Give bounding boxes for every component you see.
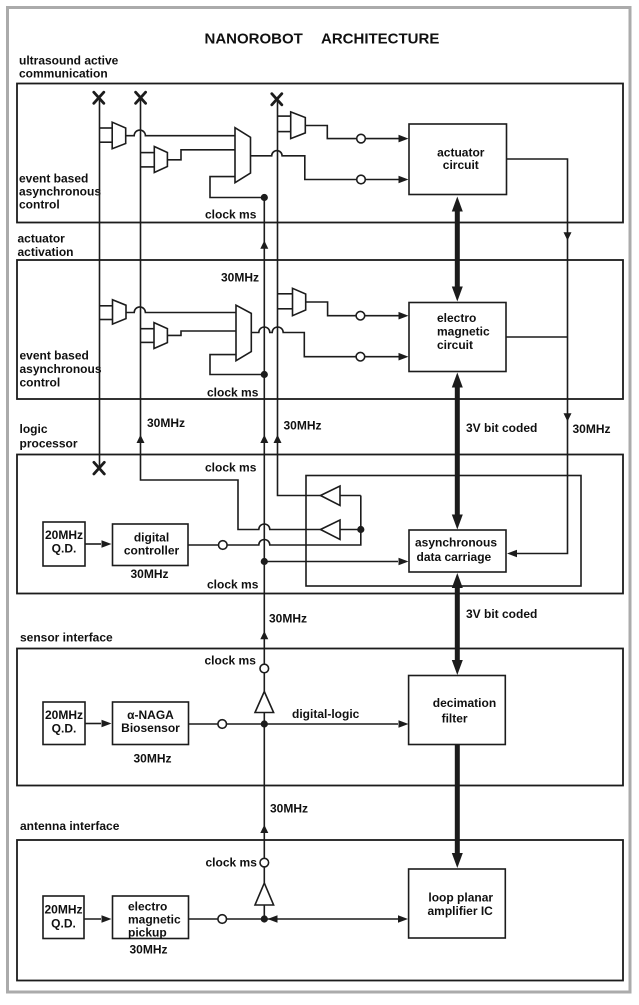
digital controller box U5 bbox=[113, 524, 189, 566]
20MHz QD box S4 bbox=[43, 702, 85, 745]
svg-text:magnetic: magnetic bbox=[128, 913, 181, 927]
mux M4 S1 bbox=[291, 112, 306, 139]
wire clock junction to async data carriage bbox=[264, 561, 398, 563]
svg-text:Q.D.: Q.D. bbox=[52, 722, 77, 736]
svg-text:Q.D.: Q.D. bbox=[51, 917, 76, 931]
wire buffer inputs bbox=[340, 496, 361, 530]
svg-text:asynchronous: asynchronous bbox=[415, 536, 497, 550]
wire mux M2 output bbox=[167, 150, 235, 160]
svg-text:actuator: actuator bbox=[18, 232, 66, 246]
mux M8 S2 bbox=[293, 288, 306, 315]
connector circle biosensor output bbox=[218, 720, 227, 729]
wire mux M5 output with hop bbox=[126, 307, 236, 313]
arrowhead into actuator circuit lower bbox=[399, 176, 409, 184]
svg-text:30MHz: 30MHz bbox=[270, 802, 308, 816]
svg-text:control: control bbox=[19, 198, 60, 212]
X mark X1 bbox=[94, 92, 104, 103]
X mark X4 logic processor bbox=[94, 462, 104, 474]
svg-text:30MHz: 30MHz bbox=[269, 612, 307, 626]
svg-text:30MHz: 30MHz bbox=[130, 943, 168, 957]
svg-text:30MHz: 30MHz bbox=[284, 419, 322, 433]
label ultrasound active communication bbox=[19, 54, 119, 81]
X mark X2 bbox=[136, 92, 146, 103]
wire mux M7 clock input bbox=[210, 355, 264, 375]
mux M3 big S1 bbox=[235, 128, 251, 183]
up arrow gap S3-S4 bbox=[260, 631, 268, 639]
svg-text:NANOROBOT: NANOROBOT bbox=[205, 31, 303, 48]
svg-text:Q.D.: Q.D. bbox=[52, 542, 77, 556]
svg-text:electro: electro bbox=[437, 311, 476, 325]
svg-text:30MHz: 30MHz bbox=[134, 752, 172, 766]
actuator circuit box U3 bbox=[409, 124, 507, 195]
thick arrow decimation to loop planar bbox=[452, 745, 463, 869]
svg-text:loop planar: loop planar bbox=[428, 891, 493, 905]
wire QD to biosensor with arrowhead bbox=[85, 723, 101, 725]
mux M5 S2 bbox=[113, 300, 127, 324]
buffer U10 triangle S5 bbox=[255, 883, 274, 905]
svg-text:processor: processor bbox=[20, 437, 78, 451]
buffer U1 upper triangle bbox=[321, 486, 341, 506]
section box S3 logic processor bbox=[17, 455, 623, 594]
svg-text:ultrasound active: ultrasound active bbox=[19, 54, 119, 68]
wire L7 actuator circuit output down to async data carriage bbox=[506, 159, 568, 554]
label event based asynchronous control S1 bbox=[19, 172, 101, 212]
connector circle S4 clock bbox=[260, 664, 269, 673]
svg-text:3V bit coded: 3V bit coded bbox=[466, 421, 537, 435]
thick arrow actuator to electro magnetic bidirectional bbox=[452, 197, 463, 302]
svg-text:controller: controller bbox=[124, 544, 180, 558]
svg-text:sensor interface: sensor interface bbox=[20, 631, 113, 645]
svg-text:logic: logic bbox=[20, 422, 48, 436]
wire mux M3 clock input bbox=[210, 177, 264, 198]
svg-text:clock ms: clock ms bbox=[205, 654, 257, 668]
label logic processor bbox=[20, 422, 78, 451]
thick arrow electro magnetic to async bidirectional bbox=[452, 373, 463, 530]
svg-text:30MHz: 30MHz bbox=[147, 416, 185, 430]
svg-text:electro: electro bbox=[128, 900, 167, 914]
electro magnetic circuit box U4 bbox=[409, 303, 506, 372]
wire L3 vertical from X3 down to upper buffer U1 bbox=[278, 99, 321, 496]
electro magnetic pickup box U11 bbox=[113, 896, 189, 939]
arrowhead into electro magnetic circuit lower bbox=[399, 353, 409, 361]
junction dot S3 clock to async bbox=[261, 558, 268, 565]
down arrow L7 gap S2-S3 bbox=[564, 413, 572, 421]
buffer U2 lower triangle bbox=[321, 520, 341, 540]
svg-text:Biosensor: Biosensor bbox=[121, 721, 180, 735]
decimation filter box U9 bbox=[409, 676, 506, 745]
svg-text:magnetic: magnetic bbox=[437, 325, 490, 339]
mux M7 big S2 bbox=[236, 305, 251, 361]
up arrow gap S1-S2 clock line bbox=[260, 241, 268, 249]
wire mux M7 output with two hops to electro magnetic circuit bbox=[251, 327, 404, 357]
wire QD to pickup with arrowhead bbox=[84, 918, 101, 920]
wire biosensor output to decimation filter bbox=[189, 723, 399, 725]
svg-text:event based: event based bbox=[19, 172, 88, 186]
svg-text:amplifier IC: amplifier IC bbox=[428, 904, 494, 918]
connector circle S1 upper bbox=[357, 134, 366, 143]
arrowhead into actuator circuit upper bbox=[399, 135, 409, 143]
up arrows gap S2-S3 bbox=[137, 435, 145, 443]
svg-text:clock ms: clock ms bbox=[207, 386, 259, 400]
svg-text:circuit: circuit bbox=[443, 158, 479, 172]
svg-text:clock ms: clock ms bbox=[206, 856, 258, 870]
junction dot S1 clock bbox=[261, 194, 268, 201]
arrowhead into electro magnetic circuit upper bbox=[399, 312, 409, 320]
svg-text:digital: digital bbox=[134, 531, 169, 545]
wire mux M6 output bbox=[167, 331, 236, 335]
connector circle pickup output bbox=[218, 915, 227, 924]
connector circle controller output bbox=[219, 541, 228, 550]
svg-text:3V bit coded: 3V bit coded bbox=[466, 607, 537, 621]
svg-text:communication: communication bbox=[19, 67, 108, 81]
20MHz QD box S3 bbox=[43, 522, 85, 566]
label actuator activation bbox=[18, 232, 74, 260]
svg-text:clock ms: clock ms bbox=[207, 578, 259, 592]
wire pickup output to loop planar amplifier bidirectional bbox=[189, 918, 399, 920]
svg-text:digital-logic: digital-logic bbox=[292, 707, 360, 721]
section box S4 sensor interface bbox=[17, 649, 623, 786]
inner box logic processor bbox=[306, 476, 581, 587]
wire L1 vertical from X1 down to X4 with stubs to mux inputs bbox=[100, 98, 113, 468]
wire mux M1 output with hop bbox=[126, 130, 235, 136]
svg-text:clock ms: clock ms bbox=[205, 461, 257, 475]
label event based asynchronous control S2 bbox=[20, 349, 102, 390]
svg-text:data carriage: data carriage bbox=[417, 550, 492, 564]
svg-text:filter: filter bbox=[442, 712, 468, 726]
wire mux M8 output to electro magnetic circuit bbox=[306, 302, 404, 316]
wire controller output with hop to buffers bbox=[188, 496, 361, 546]
svg-text:clock ms: clock ms bbox=[205, 208, 257, 222]
svg-text:30MHz: 30MHz bbox=[131, 567, 169, 581]
svg-text:activation: activation bbox=[18, 245, 74, 259]
junction dot S4 clock bbox=[261, 720, 268, 727]
svg-text:30MHz: 30MHz bbox=[573, 422, 611, 436]
down arrow L7 gap S1-S2 bbox=[564, 232, 572, 240]
svg-text:20MHz: 20MHz bbox=[45, 528, 83, 542]
svg-text:α-NAGA: α-NAGA bbox=[127, 708, 174, 722]
section box S2 actuator activation bbox=[17, 260, 623, 399]
20MHz QD box S5 bbox=[43, 896, 84, 939]
svg-text:asynchronous: asynchronous bbox=[20, 362, 102, 376]
section box S1 ultrasound active communication bbox=[17, 84, 623, 223]
connector circle S5 clock bbox=[260, 858, 269, 867]
mux M1 S1 bbox=[112, 122, 126, 149]
svg-text:control: control bbox=[20, 376, 61, 390]
svg-text:circuit: circuit bbox=[437, 338, 473, 352]
biosensor box U8 bbox=[113, 702, 189, 745]
X mark X3 bbox=[272, 94, 282, 105]
junction dot buffer input bbox=[357, 526, 364, 533]
svg-text:pickup: pickup bbox=[128, 926, 167, 940]
connector circle S1 lower bbox=[357, 175, 366, 184]
junction dot S5 clock bbox=[261, 915, 268, 922]
svg-text:30MHz: 30MHz bbox=[221, 271, 259, 285]
mux M6 S2 bbox=[154, 323, 167, 349]
mux M2 S1 bbox=[154, 147, 167, 173]
connector circle S2 lower bbox=[356, 352, 365, 361]
up arrow gap S4-S5 bbox=[260, 825, 268, 833]
svg-text:ARCHITECTURE: ARCHITECTURE bbox=[321, 31, 439, 48]
section box S5 antenna interface bbox=[17, 840, 623, 981]
svg-text:event based: event based bbox=[20, 349, 89, 363]
junction dot S2 clock bbox=[261, 371, 268, 378]
wire QD to digital controller with arrowhead bbox=[85, 543, 101, 545]
wire L2 vertical from X2 down through sections to lower buffer U2 bbox=[141, 98, 321, 530]
wire mux M4 output to actuator circuit bbox=[305, 126, 404, 139]
wire L4 central clock ms line bbox=[263, 198, 265, 920]
connector circle S2 upper bbox=[356, 311, 365, 320]
wire mux M3 output with hop to actuator circuit bbox=[251, 151, 405, 180]
async data carriage box U6 bbox=[409, 530, 506, 572]
svg-text:decimation: decimation bbox=[433, 696, 496, 710]
svg-text:asynchronous: asynchronous bbox=[19, 185, 101, 199]
svg-text:20MHz: 20MHz bbox=[44, 903, 82, 917]
buffer U7 triangle S4 bbox=[255, 692, 274, 713]
loop planar amplifier IC box U12 bbox=[409, 869, 506, 938]
svg-text:antenna interface: antenna interface bbox=[20, 819, 120, 833]
thick arrow async to decimation bidirectional bbox=[452, 573, 463, 675]
svg-text:20MHz: 20MHz bbox=[45, 708, 83, 722]
arrowhead L7 into async right side bbox=[507, 550, 517, 558]
